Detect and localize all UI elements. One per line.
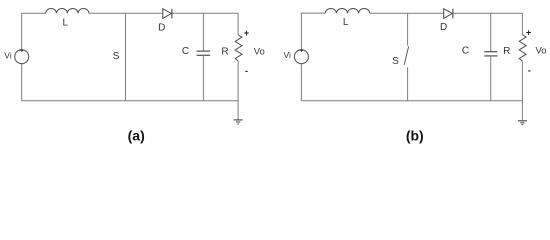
wire: top left segment (a) [21, 12, 46, 14]
wire: top left segment (b) [301, 12, 325, 14]
wire: bottom rail (b) [301, 100, 522, 102]
wire: capacitor branch top (a) [202, 13, 204, 51]
capacitor C (circuit a) [197, 51, 211, 55]
wire: resistor branch top (b) [521, 13, 523, 35]
svg-text:C: C [462, 45, 469, 56]
svg-text:+: + [244, 28, 249, 38]
svg-text:(a): (a) [128, 128, 145, 144]
wire: ground stem (a) [237, 101, 239, 120]
wire: bottom rail (a) [22, 100, 238, 102]
voltage source Vi (circuit a) [15, 49, 29, 63]
ground symbol (circuit b) [518, 121, 527, 125]
svg-text:Vo: Vo [535, 46, 546, 57]
inductor L (circuit a) [46, 8, 89, 13]
wire: resistor branch bottom (b) [521, 61, 523, 101]
svg-text:Vi: Vi [283, 50, 291, 60]
svg-text:S: S [113, 51, 120, 62]
wire: left vertical below source (b) [300, 64, 302, 101]
diode D (circuit b) [444, 9, 453, 19]
svg-text:C: C [182, 46, 189, 57]
resistor R zigzag (circuit a) [235, 35, 242, 61]
switch S open blade (circuit b) [404, 47, 408, 65]
svg-text:D: D [440, 22, 447, 33]
svg-text:-: - [528, 65, 531, 75]
svg-text:R: R [503, 46, 510, 57]
wire: resistor branch bottom (a) [237, 61, 239, 101]
wire: capacitor branch bottom (a) [202, 55, 204, 100]
capacitor C (circuit b) [484, 52, 497, 56]
svg-text:D: D [158, 22, 165, 33]
svg-text:S: S [392, 56, 399, 67]
svg-text:Vi: Vi [4, 50, 12, 60]
inductor L (circuit b) [325, 8, 369, 13]
svg-text:+: + [526, 28, 531, 38]
wire: top right segment (a) [172, 12, 238, 14]
wire: resistor branch top (a) [237, 13, 239, 35]
resistor R zigzag (circuit b) [519, 35, 526, 61]
wire: top middle segment (b) [370, 12, 444, 14]
wire: capacitor branch bottom (b) [490, 56, 492, 101]
svg-text:Vo: Vo [254, 46, 265, 57]
voltage source Vi (circuit b) [294, 49, 308, 63]
wire: left vertical below source (a) [21, 64, 23, 101]
wire: ground stem (b) [521, 101, 523, 121]
wire: left vertical above source (b) [300, 13, 302, 50]
wire: top middle segment (a) [89, 12, 163, 14]
svg-text:L: L [63, 17, 69, 28]
svg-text:L: L [343, 17, 349, 28]
svg-text:(b): (b) [406, 128, 424, 144]
wire: switch branch lower (b) [407, 67, 409, 101]
switch S closed (circuit a) [125, 13, 127, 100]
wire: capacitor branch top (b) [490, 13, 492, 51]
diode D (circuit a) [163, 9, 172, 19]
wire: top right segment (b) [453, 12, 523, 14]
svg-text:R: R [221, 46, 228, 57]
wire: switch branch upper (b) [407, 13, 409, 46]
wire: left vertical above source (a) [21, 13, 23, 49]
ground symbol (circuit a) [234, 120, 243, 124]
svg-text:-: - [245, 66, 248, 76]
